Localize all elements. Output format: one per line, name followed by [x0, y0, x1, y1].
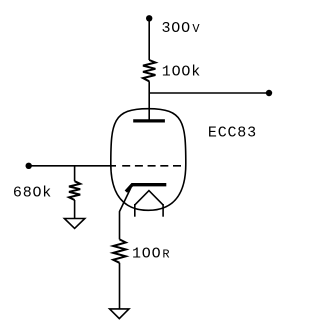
svg-text:1OOk: 1OOk — [162, 63, 201, 80]
svg-text:1OOR: 1OOR — [132, 245, 170, 262]
svg-text:ECC83: ECC83 — [208, 124, 257, 141]
svg-text:3OOV: 3OOV — [162, 20, 201, 37]
svg-text:68Ok: 68Ok — [13, 184, 52, 201]
